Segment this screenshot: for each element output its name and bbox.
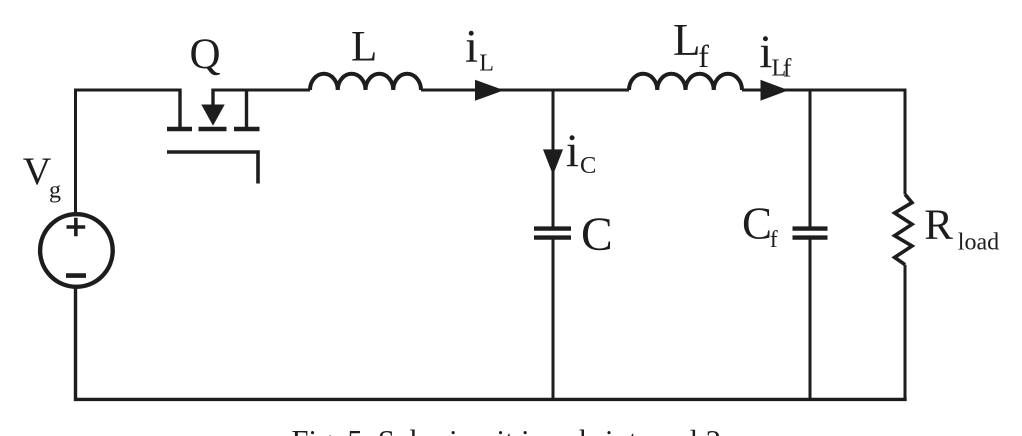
transistor Q gate electrode and gate lead — [167, 152, 258, 184]
svg-text:C: C — [742, 199, 772, 249]
inductor L — [310, 74, 421, 90]
current arrow iL — [475, 80, 504, 101]
resistor Rload zigzag — [895, 194, 912, 264]
transistor Q drain contact bar — [167, 127, 192, 132]
wire: top rail from Lf to top-right corner — [742, 89, 905, 92]
wire: right branch lower segment from resistor — [904, 265, 907, 399]
svg-text:L: L — [351, 23, 377, 70]
capacitor Cf bottom plate — [793, 235, 828, 239]
transistor Q (MOSFET) — [167, 89, 260, 184]
transistor Q body lead — [211, 89, 214, 108]
wire: left branch from Vg top up and right to transistor drain — [76, 90, 181, 214]
svg-text:V: V — [23, 149, 52, 193]
current arrow iC — [543, 149, 563, 175]
svg-text:C: C — [580, 152, 596, 179]
transistor Q source lead — [245, 89, 248, 128]
wire: C branch lower segment to bottom rail — [552, 239, 555, 399]
svg-text:f: f — [698, 38, 709, 74]
svg-text:R: R — [924, 202, 953, 249]
svg-text:L: L — [479, 51, 494, 77]
transistor Q body contact bar — [199, 127, 227, 132]
wire: bottom rail and Vg bottom lead — [74, 287, 907, 401]
current arrow iLf — [761, 80, 789, 101]
wire: Cf branch lower segment — [809, 239, 812, 399]
svg-text:Q: Q — [190, 31, 221, 78]
svg-text:load: load — [958, 230, 999, 256]
svg-text:g: g — [49, 177, 61, 203]
capacitor C top plate — [534, 226, 571, 230]
svg-text:C: C — [581, 209, 613, 261]
wire: top rail from L to Lf through node A — [421, 89, 629, 92]
wire: right branch upper segment to resistor — [904, 89, 907, 195]
capacitor C bottom plate — [534, 235, 571, 239]
wire: top rail from transistor source to inductor L — [213, 89, 310, 92]
wire: C branch upper segment at node A — [552, 89, 555, 227]
svg-text:f: f — [783, 54, 792, 83]
transistor Q source contact bar — [234, 127, 260, 132]
transistor Q body arrow — [201, 105, 224, 126]
svg-text:i: i — [566, 125, 579, 177]
voltage source plus sign — [67, 218, 86, 237]
svg-text:Fig. 5. Sub-circuit in sub-int: Fig. 5. Sub-circuit in sub-interval 2 — [292, 424, 722, 436]
transistor Q drain lead — [178, 89, 181, 128]
voltage source Vg circle — [40, 214, 113, 287]
voltage source minus sign — [66, 273, 86, 278]
svg-text:i: i — [759, 26, 772, 78]
inductor Lf — [629, 74, 742, 90]
wire: Cf branch upper segment — [809, 89, 812, 227]
svg-text:i: i — [465, 20, 478, 72]
svg-text:L: L — [673, 15, 701, 65]
svg-text:f: f — [770, 227, 778, 253]
capacitor Cf top plate — [793, 226, 828, 230]
